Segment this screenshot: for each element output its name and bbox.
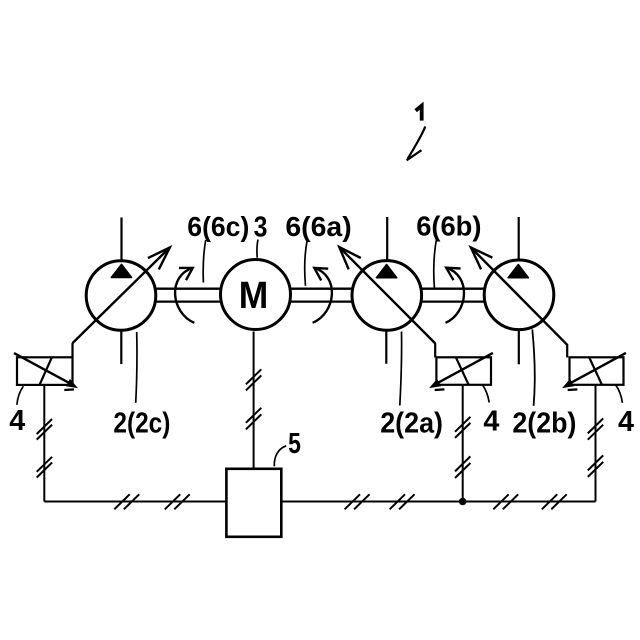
- rotation arrow 6c: [175, 268, 194, 323]
- regulator valve 4 left: [14, 343, 78, 390]
- regulator valve 4 right: [562, 344, 626, 390]
- signal wire valve4 left to bus: [43, 385, 45, 502]
- svg-text:2(2c): 2(2c): [113, 408, 170, 440]
- signal bus left: [44, 501, 226, 503]
- label 1: [407, 106, 426, 161]
- shaft 2c to M: [156, 289, 221, 302]
- svg-text:M: M: [239, 275, 268, 317]
- pump 2b: [484, 260, 554, 330]
- svg-text:4: 4: [9, 405, 25, 437]
- pump 2c bottom port wire: [120, 330, 122, 364]
- svg-text:2(2b): 2(2b): [512, 408, 576, 440]
- label 2(2c) leader: [136, 332, 137, 403]
- shaft 2a to 2b: [421, 289, 484, 302]
- pump 2a variable arrow: [339, 247, 435, 343]
- signal bus right: [281, 501, 595, 503]
- svg-text:5: 5: [288, 428, 301, 460]
- pump 2c top port wire: [120, 218, 122, 262]
- controller 5: [226, 469, 281, 537]
- signal slashes bus left: [114, 494, 189, 509]
- rotation arrow 6b: [446, 268, 465, 323]
- signal slashes M wire: [246, 369, 261, 429]
- signal wire valve4 right to bus: [595, 385, 597, 502]
- label 4 right leader: [616, 385, 623, 403]
- label 3 leader: [257, 240, 258, 258]
- shaft M to 2a: [290, 289, 352, 302]
- signal wire motor M to controller: [253, 332, 255, 469]
- label 4 middle leader: [482, 385, 489, 403]
- svg-text:3: 3: [254, 212, 268, 244]
- label 4 left leader: [17, 386, 23, 405]
- label 6(6c) leader: [203, 240, 206, 283]
- pump 2a bottom port wire: [385, 330, 387, 364]
- pump 2b top port wire: [518, 217, 520, 261]
- pump 2c: [86, 261, 156, 331]
- label 6(6b) leader: [434, 239, 437, 288]
- pump 2a: [352, 261, 422, 331]
- label 2(2b) leader: [532, 330, 535, 406]
- rotation arrow 6a: [313, 268, 332, 323]
- junction node: [459, 498, 467, 506]
- pump 2b variable arrow: [471, 248, 567, 345]
- svg-text:6(6c): 6(6c): [187, 211, 249, 242]
- pump 2a top port wire: [386, 217, 388, 261]
- pump 2c variable arrow: [73, 248, 170, 344]
- svg-text:6(6b): 6(6b): [416, 211, 481, 242]
- label 6(6a) leader: [305, 241, 307, 286]
- svg-text:4: 4: [618, 406, 634, 438]
- signal slashes bus right: [345, 494, 567, 509]
- svg-text:6(6a): 6(6a): [285, 211, 351, 242]
- signal slashes right wire: [588, 418, 603, 477]
- motor M: [221, 260, 291, 330]
- signal wire valve4 middle to bus: [462, 385, 464, 502]
- signal slashes left wire: [37, 419, 52, 478]
- svg-text:2(2a): 2(2a): [380, 408, 443, 440]
- label 2(2a) leader: [400, 332, 402, 406]
- svg-text:4: 4: [483, 405, 499, 437]
- pump 2b bottom port wire: [518, 330, 520, 365]
- signal slashes middle wire: [455, 417, 470, 478]
- label 5 leader: [274, 446, 286, 467]
- regulator valve 4 middle: [429, 343, 493, 390]
